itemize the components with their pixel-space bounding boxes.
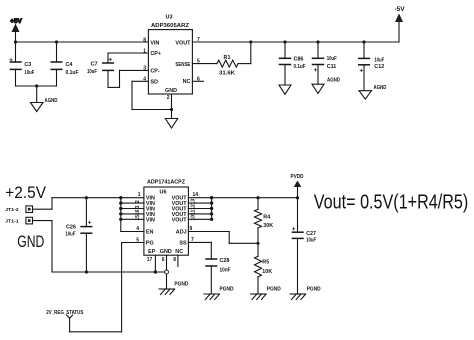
svg-text:VOUT: VOUT: [172, 217, 188, 223]
svg-text:PGND: PGND: [307, 287, 321, 293]
svg-text:R5: R5: [262, 260, 269, 266]
svg-text:R4: R4: [263, 215, 270, 221]
capacitor C86 0.1uF: [280, 42, 307, 85]
wire JT1-2 to +2.5V rail: [33, 198, 53, 210]
IC U3 ADP3605ARZ: [148, 15, 192, 95]
svg-text:0.1uF: 0.1uF: [66, 70, 80, 76]
power -5V: [394, 6, 405, 42]
svg-text:C4: C4: [66, 62, 73, 68]
ground PGND (C27): [290, 287, 321, 300]
junction C4 / rail: [55, 40, 58, 43]
U6 VOUT output bus: [188, 196, 213, 221]
wire EN U6 pin 4: [121, 231, 144, 233]
svg-text:-5V: -5V: [394, 6, 405, 13]
svg-text:CP-: CP-: [150, 68, 159, 74]
junction R4/R5/ADJ: [256, 242, 259, 245]
svg-text:+5V: +5V: [10, 18, 22, 25]
svg-text:10uF: 10uF: [306, 238, 317, 244]
wire U3 SENSE pin 5 to R1: [192, 63, 217, 65]
svg-text:JT1-1: JT1-1: [5, 218, 19, 223]
junction C86: [283, 40, 286, 43]
svg-text:2: 2: [167, 95, 170, 101]
U6 GND pin 6 stub: [162, 255, 167, 289]
wire PG U6 pin 5 to 2V_REG_STATUS: [70, 243, 144, 332]
resistor R1 31.6K: [217, 55, 238, 77]
svg-text:3: 3: [135, 205, 141, 208]
svg-text:U3: U3: [166, 15, 173, 21]
svg-text:4: 4: [143, 76, 146, 82]
U3 NC pin 6 stub: [192, 80, 203, 82]
wire C7 to U3 CP- pin 3: [108, 70, 148, 87]
U3 pin numbers: [143, 37, 200, 101]
ground AGND (C3/C4): [30, 86, 57, 112]
junction ground bus: [35, 84, 38, 87]
svg-text:10uF: 10uF: [24, 70, 35, 76]
svg-text:10uF: 10uF: [65, 232, 76, 238]
junction C26 bottom: [85, 270, 88, 273]
svg-text:GND: GND: [17, 232, 44, 251]
svg-text:CP+: CP+: [150, 51, 161, 57]
svg-text:SD: SD: [150, 79, 158, 85]
ground AGND (U3): [165, 110, 177, 129]
svg-text:3: 3: [143, 65, 146, 71]
junction GND / ground rail: [165, 270, 169, 274]
svg-text:15: 15: [135, 215, 141, 221]
junction +5V / C3: [14, 40, 17, 43]
wire VOUT rail to PVDD: [212, 197, 298, 199]
svg-text:PG: PG: [146, 241, 154, 247]
svg-text:+: +: [359, 68, 363, 75]
svg-text:11: 11: [190, 210, 196, 216]
svg-text:PGND: PGND: [220, 287, 234, 293]
IC U6 ADP1741ACPZ: [144, 180, 189, 256]
wire U3 SD pin 4 to ground node: [132, 81, 172, 109]
svg-text:EP: EP: [148, 249, 156, 255]
svg-text:R1: R1: [224, 55, 231, 61]
U6 pin numbers right: [190, 192, 199, 243]
power PVDD: [291, 174, 304, 198]
wire U3 GND pin 2 stub: [171, 94, 173, 110]
svg-text:AGND: AGND: [327, 78, 340, 84]
junction EP / ground rail: [154, 270, 157, 273]
svg-text:6: 6: [162, 257, 165, 263]
wire SS U6 pin 7 to C28: [188, 242, 211, 259]
ground PGND (C28): [204, 287, 234, 300]
svg-text:C27: C27: [306, 231, 316, 237]
svg-text:VOUT: VOUT: [175, 41, 191, 47]
svg-text:+: +: [88, 220, 92, 227]
capacitor C26 10uF: [65, 198, 91, 272]
svg-text:C12: C12: [374, 64, 384, 70]
junction C26 top: [85, 196, 88, 199]
junction C27 / PVDD: [296, 196, 299, 199]
resistor R5 10K: [255, 243, 273, 294]
ground PGND (U6): [159, 282, 188, 295]
junction C11: [316, 40, 319, 43]
svg-text:31.6K: 31.6K: [219, 71, 235, 77]
svg-text:U6: U6: [160, 190, 167, 196]
svg-text:10uF: 10uF: [327, 56, 338, 62]
svg-text:30K: 30K: [263, 223, 273, 229]
svg-text:ADP1741ACPZ: ADP1741ACPZ: [147, 180, 186, 186]
svg-text:ADP3605ARZ: ADP3605ARZ: [151, 23, 190, 29]
svg-text:2: 2: [135, 200, 141, 203]
svg-text:AGND: AGND: [45, 98, 58, 104]
ground PGND (R5): [251, 287, 281, 300]
capacitor C12 10uF: [359, 42, 385, 91]
svg-text:C26: C26: [66, 225, 76, 231]
wire ADJ U6 pin 9 to R4/R5 junction: [188, 232, 258, 244]
svg-text:1: 1: [138, 192, 141, 198]
svg-text:1: 1: [143, 48, 146, 54]
connector JT1-2: [5, 206, 32, 213]
svg-text:C3: C3: [24, 62, 31, 68]
capacitor C28 10nF: [206, 258, 231, 294]
resistor R4 30K: [255, 198, 274, 244]
svg-text:4: 4: [136, 226, 139, 232]
capacitor C11 10uF: [313, 42, 338, 84]
ground (C86): [279, 85, 291, 94]
svg-text:EN: EN: [146, 230, 154, 236]
svg-text:VIN: VIN: [150, 41, 159, 47]
svg-text:JT1-2: JT1-2: [5, 207, 19, 212]
svg-text:12: 12: [190, 204, 196, 210]
wire C3-C4 ground bus: [16, 85, 57, 87]
svg-text:10uF: 10uF: [87, 69, 98, 75]
svg-text:SS: SS: [179, 241, 187, 247]
junction R1 / rail: [249, 40, 252, 43]
wire U3 CP+ pin 1 to C7: [108, 53, 148, 63]
svg-text:17: 17: [147, 257, 153, 263]
svg-text:AGND: AGND: [374, 85, 387, 91]
svg-text:8: 8: [173, 257, 176, 263]
svg-text:PVDD: PVDD: [291, 174, 304, 180]
svg-text:8: 8: [143, 37, 146, 43]
capacitor C4 0.1uF: [51, 42, 79, 86]
U6 VIN input bus: [119, 196, 144, 232]
svg-text:16: 16: [135, 209, 141, 215]
junction SD/GND: [170, 108, 173, 111]
svg-text:PGND: PGND: [174, 282, 188, 288]
svg-text:10K: 10K: [262, 269, 272, 275]
svg-text:13: 13: [190, 199, 196, 205]
wire +2.5V rail: [52, 197, 121, 199]
ground AGND (C12): [359, 85, 387, 99]
svg-text:+: +: [314, 67, 318, 74]
wire U3 VOUT pin 7 rail: [192, 41, 399, 43]
svg-text:14: 14: [193, 192, 199, 198]
ground AGND (C11): [312, 78, 340, 94]
wire R1 to VOUT rail: [238, 42, 251, 64]
svg-text:+2.5V: +2.5V: [5, 183, 46, 202]
svg-text:C28: C28: [220, 258, 230, 264]
svg-text:0.1uF: 0.1uF: [294, 64, 307, 70]
svg-text:ADJ: ADJ: [176, 230, 187, 236]
junction C12: [362, 40, 365, 43]
svg-text:+: +: [292, 226, 296, 233]
capacitor C7 10uF: [87, 57, 113, 76]
U6 NC pin 8 stub: [173, 255, 178, 266]
connector JT1-1: [5, 217, 32, 224]
svg-text:VIN: VIN: [146, 217, 155, 223]
svg-text:PGND: PGND: [267, 287, 281, 293]
wire +5V rail to U3 VIN pin 8: [16, 41, 149, 43]
svg-text:10uF: 10uF: [374, 57, 385, 63]
capacitor C3 10uF: [9, 42, 35, 86]
U6 EP pin 17 stub: [147, 255, 156, 272]
svg-text:2V_REG_STATUS: 2V_REG_STATUS: [46, 310, 83, 316]
svg-text:NC: NC: [183, 79, 191, 85]
svg-text:+: +: [108, 57, 112, 64]
svg-text:C7: C7: [91, 62, 98, 68]
svg-text:10: 10: [190, 215, 196, 221]
svg-text:GND: GND: [160, 249, 172, 255]
wire ground rail: [52, 271, 167, 273]
capacitor C27 10uF: [292, 198, 317, 294]
power +5V: [10, 18, 22, 42]
svg-text:C11: C11: [327, 64, 337, 70]
wire JT1-1 to ground rail: [33, 221, 53, 272]
svg-text:C86: C86: [294, 57, 304, 63]
junction R4 top: [256, 196, 259, 199]
svg-text:GND: GND: [165, 88, 177, 94]
svg-text:Vout= 0.5V(1+R4/R5): Vout= 0.5V(1+R4/R5): [314, 190, 469, 213]
svg-text:+: +: [9, 57, 13, 64]
svg-text:SENSE: SENSE: [175, 62, 190, 68]
svg-text:NC: NC: [175, 249, 183, 255]
U6 pin numbers left: [135, 192, 141, 243]
svg-text:10nF: 10nF: [220, 268, 232, 274]
